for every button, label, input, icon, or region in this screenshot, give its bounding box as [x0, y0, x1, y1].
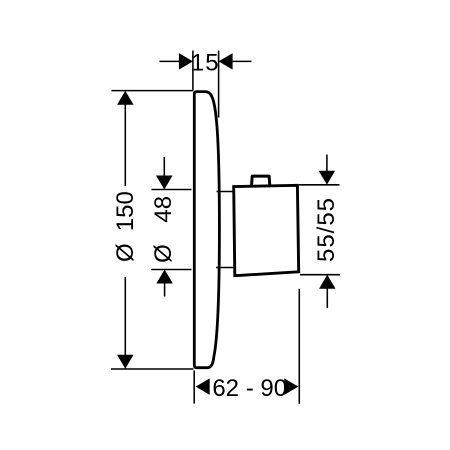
dimension 15 : right leader and arrow	[219, 53, 252, 70]
dimension 62-90 : left extension line	[193, 371, 195, 404]
dimension Ø48 : bottom leader and arrow	[156, 270, 173, 297]
dimension Ø150 : bottom extension line	[111, 368, 194, 370]
dimension 62-90 : right arrow	[284, 378, 298, 395]
dimension Ø48 : top leader and arrow	[156, 157, 173, 190]
valve neck top line	[217, 191, 235, 193]
dimension Ø150 : dimension line with arrows	[117, 91, 134, 369]
svg-text:15: 15	[191, 50, 220, 77]
dimension 15 : extension line right	[218, 51, 220, 118]
svg-text:62 - 90: 62 - 90	[212, 375, 287, 402]
dimension Ø48 : top tick line	[152, 189, 192, 191]
dimension 55/55 : top extension line	[299, 184, 340, 186]
dimension 15 : label	[191, 50, 220, 77]
dimension 55/55 : top leader and arrow	[319, 155, 336, 185]
dimension 15 : extension line left	[192, 51, 194, 91]
escutcheon plate (side profile)	[194, 92, 219, 368]
svg-text:Ø 48: Ø 48	[150, 196, 177, 263]
dimension 55/55 : label	[313, 197, 340, 262]
dimension 62-90 : right extension line	[298, 289, 300, 404]
dimension 62-90 : label	[212, 375, 287, 402]
dimension 55/55 : bottom leader and arrow	[319, 275, 336, 308]
dimension 15 : left leader and arrow	[160, 53, 193, 70]
dimension Ø48 : bottom tick line	[151, 269, 192, 271]
dimension Ø150 : label	[112, 191, 139, 262]
dimension 55/55 : bottom extension line	[300, 274, 340, 276]
svg-text:55/55: 55/55	[313, 197, 340, 262]
dimension 62-90 : left arrow	[196, 378, 210, 395]
spindle knob on body	[252, 176, 270, 186]
dimension Ø150 : top extension line	[112, 90, 194, 92]
dimension Ø48 : label	[150, 196, 177, 263]
valve body	[234, 185, 299, 275]
valve neck bottom line	[216, 267, 234, 269]
svg-text:Ø 150: Ø 150	[112, 191, 139, 262]
